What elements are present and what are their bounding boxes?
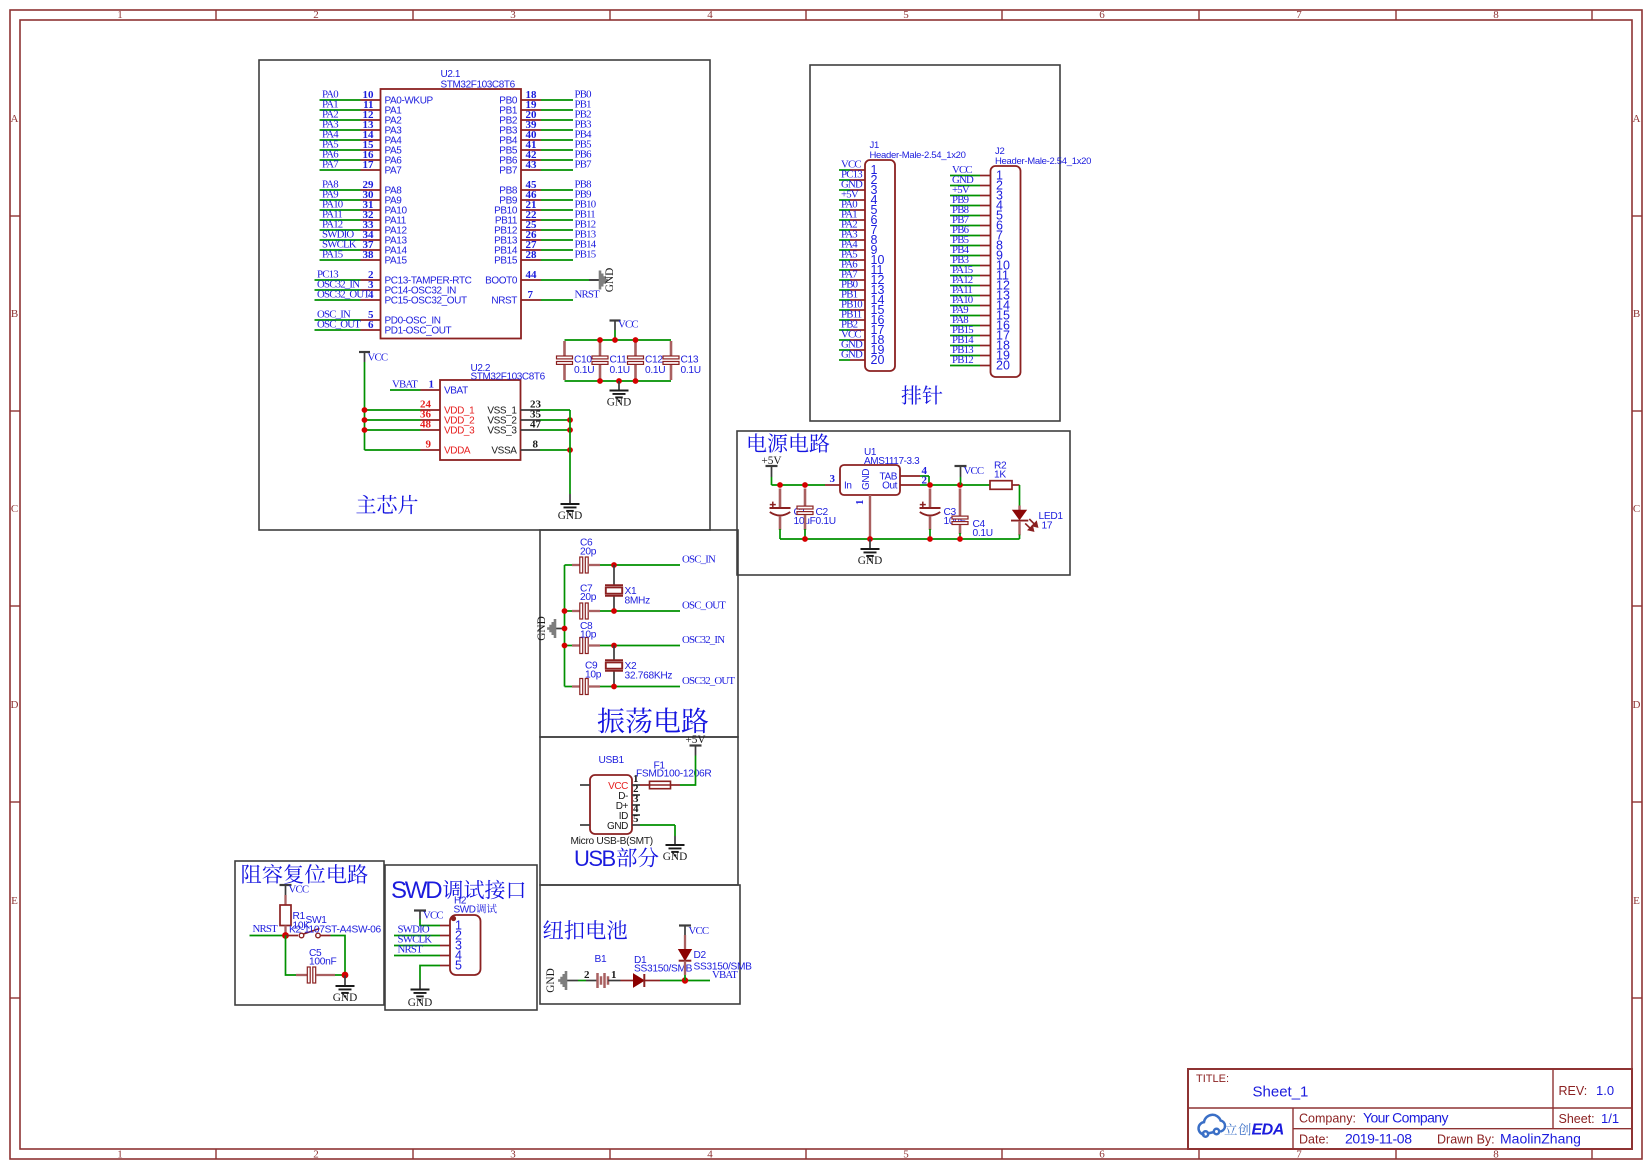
svg-text:VCC: VCC: [368, 352, 388, 364]
U2.1 pin 40 PB4 / wire + net label PB4: [499, 129, 592, 147]
wire VSS rail down to ground: [569, 410, 571, 494]
J2 pin 19 / wire + net label PB13: [950, 344, 1010, 363]
net label NRST + wire: [250, 923, 289, 939]
wire bottom rail C10-C13: [565, 380, 672, 382]
J2 pin 3 / wire + net label +5V: [950, 184, 1003, 203]
svg-text:1: 1: [117, 1149, 123, 1161]
svg-text:GND: GND: [841, 349, 863, 361]
svg-text:Out: Out: [882, 481, 898, 492]
U2.1 pin 14 PA4 / wire + net label PA4: [320, 129, 403, 147]
svg-text:GND: GND: [558, 510, 582, 522]
U2.1 pin 4 PC15-OSC32_OUT / wire + net label OSC32_OUT: [315, 289, 467, 307]
wire gnd to battery: [575, 980, 597, 982]
capacitor C13 0.1U: [663, 341, 701, 380]
U2.2 pin 8 VSSA + wire: [491, 439, 572, 457]
svg-text:32.768KHz: 32.768KHz: [625, 671, 673, 682]
svg-text:In: In: [844, 481, 852, 492]
svg-text:OSC32_OUT: OSC32_OUT: [317, 289, 370, 301]
svg-text:VBAT: VBAT: [392, 379, 418, 391]
ground GND usb: [663, 836, 687, 863]
svg-text:1K: 1K: [994, 470, 1006, 481]
U2.1 pin 15 PA5 / wire + net label PA5: [320, 139, 403, 157]
svg-text:PB15: PB15: [575, 249, 596, 261]
junction dots on C10-C13 rails: [597, 337, 638, 384]
ground GND swd: [408, 980, 432, 1009]
J1 pin 6 / wire + net label PA1: [839, 209, 878, 228]
J2 pin 4 / wire + net label PB9: [950, 194, 1003, 213]
section box usb: [540, 737, 738, 885]
wire SW1 to C5 right: [331, 936, 346, 976]
capacitor C11 0.1U: [592, 341, 630, 380]
capacitor C10 0.1U: [557, 341, 595, 380]
svg-text:GND: GND: [545, 968, 557, 992]
svg-text:GND: GND: [607, 821, 628, 832]
svg-text:3: 3: [830, 473, 836, 485]
svg-text:A: A: [11, 113, 19, 125]
svg-text:4: 4: [368, 289, 374, 301]
IC U2.1 STM32F103C8T6 body: [381, 89, 522, 339]
svg-text:PB12: PB12: [952, 354, 973, 366]
svg-text:PB7: PB7: [575, 159, 593, 171]
svg-text:Company:: Company:: [1299, 1112, 1356, 1126]
svg-text:REV:: REV:: [1559, 1084, 1588, 1098]
wire +5V to fuse: [680, 756, 696, 786]
svg-text:TITLE:: TITLE:: [1196, 1073, 1229, 1085]
svg-text:17: 17: [1042, 521, 1053, 532]
J2 pin 8 / wire + net label PB5: [950, 234, 1003, 253]
J2 pin 16 / wire + net label PA8: [950, 314, 1010, 333]
J1 pin 2 / wire + net label PC13: [839, 169, 878, 188]
svg-text:D: D: [1633, 699, 1641, 711]
svg-text:B: B: [1633, 308, 1640, 320]
power flag VCC above C10-C13: [610, 319, 639, 341]
svg-text:6: 6: [1099, 1149, 1105, 1161]
svg-text:1: 1: [429, 379, 435, 391]
svg-text:44: 44: [526, 269, 538, 281]
svg-text:3: 3: [510, 1149, 516, 1161]
U2.1 pin 28 PB15 / wire + net label PB15: [494, 249, 596, 267]
section box oscillator: [540, 530, 738, 737]
H2 pin 2 + net label SWDIO: [394, 924, 462, 943]
diode D2 SS3150/SMB (vertical): [679, 935, 752, 981]
J1 pin 19 / wire + net label GND: [839, 339, 884, 358]
svg-text:C: C: [11, 503, 18, 515]
J1 pin 13 / wire + net label PB0: [839, 279, 884, 298]
section box swd: [385, 865, 537, 1010]
svg-text:D: D: [11, 699, 19, 711]
U1 pin 1 (GND) lead down: [854, 495, 870, 539]
title block outer box: [1188, 1069, 1632, 1149]
section title 振荡电路: [598, 707, 708, 733]
USB1 pin 4 ID: [619, 803, 640, 822]
svg-text:B1: B1: [595, 954, 607, 965]
svg-text:1: 1: [854, 500, 866, 506]
svg-text:20p: 20p: [580, 592, 597, 603]
svg-text:10p: 10p: [585, 670, 602, 681]
svg-text:0.1U: 0.1U: [574, 365, 594, 376]
U2.1 pin 3 PC14-OSC32_IN / wire + net label OSC32_IN: [315, 279, 457, 297]
J1 pin 20 / wire + net label GND: [839, 349, 884, 368]
regulator U1 AMS1117-3.3 body: [840, 465, 900, 495]
svg-text:C: C: [1633, 503, 1640, 515]
svg-text:2: 2: [584, 969, 590, 981]
svg-text:1.0: 1.0: [1596, 1083, 1614, 1098]
svg-text:AMS1117-3.3: AMS1117-3.3: [864, 456, 920, 467]
svg-text:43: 43: [526, 159, 538, 171]
U2.2 pin 48 VDD_3: [362, 419, 475, 437]
svg-text:9: 9: [426, 439, 432, 451]
U2.1 pin 10 PA0-WKUP / wire + net label PA0: [320, 89, 434, 107]
J2 pin 9 / wire + net label PB4: [950, 244, 1003, 263]
svg-text:GND: GND: [861, 469, 872, 490]
svg-text:38: 38: [363, 249, 375, 261]
J1 pin 10 / wire + net label PA5: [839, 249, 884, 268]
U2.1 pin 20 PB2 / wire + net label PB2: [499, 109, 591, 127]
J2 pin 5 / wire + net label PB8: [950, 204, 1003, 223]
U2.1 pin 21 PB10 / wire + net label PB10: [494, 199, 596, 217]
svg-text:Header-Male-2.54_1x20: Header-Male-2.54_1x20: [870, 150, 966, 161]
J2 pin 10 / wire + net label PB3: [950, 254, 1010, 273]
svg-text:GND: GND: [604, 268, 616, 292]
U2.2 pin 47 VSS_3 + wire: [487, 419, 573, 437]
J2 pin 7 / wire + net label PB6: [950, 224, 1003, 243]
crystal X1 8MHz: [605, 565, 650, 611]
U2.1 pin 32 PA11 / wire + net label PA11: [320, 209, 407, 227]
svg-text:0.1U: 0.1U: [816, 516, 836, 527]
svg-text:BOOT0: BOOT0: [485, 276, 518, 287]
svg-text:8: 8: [1493, 9, 1499, 21]
svg-text:SWD: SWD: [454, 905, 476, 916]
U2.1 pin 38 PA15 / wire + net label PA15: [320, 249, 408, 267]
svg-text:USB1: USB1: [599, 755, 625, 766]
J1 pin 7 / wire + net label PA2: [839, 219, 878, 238]
power flag VCC (power section): [955, 465, 984, 485]
svg-text:0.1U: 0.1U: [681, 365, 701, 376]
U2.1 pin 6 PD1-OSC_OUT / wire + net label OSC_OUT: [315, 319, 452, 337]
svg-text:USB: USB: [574, 846, 616, 871]
capacitor C3 10uF: [920, 489, 966, 540]
diode D1 SS3150/SMB: [621, 955, 693, 987]
U2.1 pin 18 PB0 / wire + net label PB0: [499, 89, 591, 107]
svg-text:SWD: SWD: [391, 877, 442, 904]
svg-text:5: 5: [903, 9, 909, 21]
svg-text:D2: D2: [694, 950, 707, 961]
U2.2 pin 1 VBAT + net label VBAT: [390, 379, 468, 397]
svg-text:8MHz: 8MHz: [625, 596, 651, 607]
EasyEDA logo cloud: [1199, 1115, 1225, 1137]
svg-text:E: E: [11, 895, 18, 907]
capacitor C2 0.1U: [797, 489, 836, 540]
svg-text:1: 1: [611, 969, 617, 981]
wire battery to D1: [608, 980, 621, 982]
svg-text:SS3150/SMB: SS3150/SMB: [694, 962, 753, 973]
J1 pin 11 / wire + net label PA6: [839, 259, 884, 278]
svg-text:4: 4: [707, 1149, 713, 1161]
IC U2.2 STM32F103C8T6 (power pins) body: [440, 380, 521, 460]
svg-text:4: 4: [707, 9, 713, 21]
svg-text:MaolinZhang: MaolinZhang: [1500, 1131, 1581, 1147]
svg-text:GND: GND: [536, 616, 548, 640]
USB1 mounting tabs: [580, 785, 590, 825]
svg-text:VSS_3: VSS_3: [487, 426, 517, 437]
wire +5V to U1 In: [772, 482, 826, 488]
U1 pin 4 TAB: [879, 465, 929, 485]
power flag VCC (reset): [280, 884, 309, 896]
capacitor C1 10uF: [770, 489, 816, 540]
svg-text:PB7: PB7: [499, 166, 518, 177]
U2.1 pin 11 PA1 / wire + net label PA1: [320, 99, 403, 117]
svg-text:Your Company: Your Company: [1363, 1110, 1448, 1126]
U2.1 pin 30 PA9 / wire + net label PA9: [320, 189, 403, 207]
svg-text:2019-11-08: 2019-11-08: [1345, 1131, 1412, 1147]
J2 pin 14 / wire + net label PA10: [950, 294, 1010, 313]
svg-text:STM32F103C8T6: STM32F103C8T6: [441, 80, 516, 91]
U2.1 pin 41 PB5 / wire + net label PB5: [499, 139, 591, 157]
J2 pin 1 / wire + net label VCC: [950, 164, 1003, 183]
J1 pin 3 / wire + net label GND: [839, 179, 878, 198]
svg-text:6: 6: [368, 319, 374, 331]
svg-text:VCC: VCC: [618, 319, 638, 331]
J1 pin 17 / wire + net label PB2: [839, 319, 884, 338]
EasyEDA logo 立创EDA: [1225, 1123, 1251, 1135]
U2.1 pin 17 PA7 / wire + net label PA7: [320, 159, 403, 177]
H2 pin 4 + net label NRST: [394, 944, 462, 963]
wire left rail oscillator: [564, 565, 566, 687]
U2.1 pin 45 PB8 / wire + net label PB8: [499, 179, 591, 197]
ground flag at BOOT0 (sideways): [589, 268, 616, 292]
svg-text:20p: 20p: [580, 547, 597, 558]
svg-text:EDA: EDA: [1252, 1122, 1284, 1139]
ground GND below U2.2: [558, 494, 582, 522]
H2 pin 1 + wire from VCC: [420, 919, 462, 933]
wire top rail C10-C13: [565, 339, 672, 341]
svg-text:Header-Male-2.54_1x20: Header-Male-2.54_1x20: [995, 156, 1091, 167]
section box headers: [810, 65, 1060, 421]
svg-text:VCC: VCC: [964, 465, 984, 477]
svg-text:PA15: PA15: [322, 249, 343, 261]
U2.1 pin 13 PA3 / wire + net label PA3: [320, 119, 403, 137]
svg-text:1: 1: [117, 9, 123, 21]
svg-text:8: 8: [533, 439, 539, 451]
battery B1: [584, 954, 617, 988]
J2 pin 13 / wire + net label PA11: [950, 284, 1010, 303]
J2 pin 2 / wire + net label GND: [950, 174, 1003, 193]
svg-text:A: A: [1633, 113, 1641, 125]
wire bottom rail power: [780, 536, 1020, 542]
svg-text:7: 7: [1296, 9, 1302, 21]
J1 pin 9 / wire + net label PA4: [839, 239, 878, 258]
section box reset: [235, 861, 384, 1005]
frame row letters: [11, 113, 1641, 907]
svg-text:VCC: VCC: [423, 910, 443, 922]
U2.1 pin 39 PB3 / wire + net label PB3: [499, 119, 591, 137]
section title 阻容复位电路: [242, 864, 367, 884]
H2 pin1 marker dot: [451, 916, 456, 921]
svg-text:FSMD100-1206R: FSMD100-1206R: [636, 769, 711, 780]
power flag +5V (usb): [685, 734, 706, 756]
svg-text:0.1U: 0.1U: [645, 365, 665, 376]
svg-text:2: 2: [313, 9, 319, 21]
svg-text:1/1: 1/1: [1601, 1111, 1619, 1126]
LED LED1: [1011, 506, 1063, 540]
J2 pin 20 / wire + net label PB12: [950, 354, 1010, 373]
svg-text:7: 7: [528, 289, 534, 301]
svg-text:GND: GND: [858, 555, 882, 567]
svg-text:Drawn By:: Drawn By:: [1437, 1133, 1495, 1147]
U2.1 pin 25 PB12 / wire + net label PB12: [494, 219, 596, 237]
svg-text:20: 20: [871, 353, 885, 367]
svg-text:U2.1: U2.1: [441, 69, 461, 80]
wire D1 to VBAT: [660, 977, 710, 983]
J1 pin 12 / wire + net label PA7: [839, 269, 884, 288]
U2.1 pin 2 PC13-TAMPER-RTC / wire + net label PC13: [315, 269, 472, 287]
U2.1 pin 37 PA14 / wire + net label SWCLK: [320, 239, 408, 257]
capacitor C6 20p + wire + net label OSC_IN: [565, 538, 716, 574]
svg-text:10p: 10p: [580, 629, 597, 640]
capacitor C9 10p + wire + net label OSC32_OUT: [565, 661, 736, 695]
section title 纽扣电池: [543, 920, 627, 940]
svg-text:20: 20: [996, 359, 1010, 373]
ground flag battery (sideways): [545, 968, 575, 992]
U2.1 pin 34 PA13 / wire + net label SWDIO: [320, 229, 408, 247]
U2.1 pin 46 PB9 / wire + net label PB9: [499, 189, 591, 207]
U2.1 pin 19 PB1 / wire + net label PB1: [499, 99, 591, 117]
svg-text:3: 3: [510, 9, 516, 21]
U2.1 pin 29 PA8 / wire + net label PA8: [320, 179, 403, 197]
svg-text:NRST: NRST: [398, 944, 424, 956]
section title 排针: [902, 385, 943, 404]
ground GND power section: [858, 539, 882, 567]
ground flag oscillator (sideways): [536, 616, 567, 640]
U2.1 pin 31 PA10 / wire + net label PA10: [320, 199, 408, 217]
svg-text:OSC_IN: OSC_IN: [682, 554, 716, 566]
ground GND reset: [333, 976, 357, 1005]
J1 pin 15 / wire + net label PB10: [839, 299, 884, 318]
J2 pin 17 / wire + net label PB15: [950, 324, 1010, 343]
svg-text:VSSA: VSSA: [491, 446, 517, 457]
J2 pin 15 / wire + net label PA9: [950, 304, 1010, 323]
connector J2 Header-Male-2.54_1x20 body: [991, 166, 1021, 377]
U2.1 pin 27 PB14 / wire + net label PB14: [494, 239, 597, 257]
J1 pin 5 / wire + net label PA0: [839, 199, 878, 218]
U2.2 pin 9 VDDA: [421, 439, 471, 457]
U2.1 pin 26 PB13 / wire + net label PB13: [494, 229, 596, 247]
svg-text:NRST: NRST: [491, 296, 517, 307]
svg-text:PA15: PA15: [385, 256, 408, 267]
svg-text:100nF: 100nF: [309, 957, 336, 968]
capacitor C8 10p + wire + net label OSC32_IN: [562, 621, 726, 654]
svg-text:0.1U: 0.1U: [610, 365, 630, 376]
H2 pin 5 + wire to ground: [420, 959, 462, 981]
svg-text:Sheet_1: Sheet_1: [1253, 1084, 1309, 1101]
J1 pin 4 / wire + net label +5V: [839, 189, 878, 208]
USB1 pin 5 GND + wire: [607, 813, 675, 836]
svg-text:17: 17: [363, 159, 375, 171]
svg-text:OSC_OUT: OSC_OUT: [317, 319, 361, 331]
U2.1 pin 7 NRST + net label NRST: [491, 289, 600, 307]
svg-text:GND: GND: [663, 851, 687, 863]
title block internal lines: [1188, 1069, 1632, 1149]
power flag VCC above U2.2: [359, 352, 388, 411]
resistor R2 1K: [990, 461, 1020, 490]
svg-text:STM32F103C8T6: STM32F103C8T6: [471, 371, 546, 382]
connector J1 Header-Male-2.54_1x20 body: [865, 160, 895, 371]
svg-text:7: 7: [1296, 1149, 1302, 1161]
svg-text:B: B: [11, 308, 18, 320]
U2.2 pin 35 VSS_2 + wire: [487, 409, 573, 427]
svg-text:K2-1107ST-A4SW-06: K2-1107ST-A4SW-06: [289, 925, 382, 936]
svg-text:NRST: NRST: [253, 923, 279, 935]
svg-text:GND: GND: [408, 997, 432, 1009]
crystal X2 32.768KHz: [605, 646, 672, 687]
power flag VCC (battery): [679, 925, 709, 937]
U2.1 pin 42 PB6 / wire + net label PB6: [499, 149, 592, 167]
U1 pin 2 Out + wire to VCC: [882, 475, 990, 492]
U2.1 pin 33 PA12 / wire + net label PA12: [320, 219, 408, 237]
svg-text:OSC32_IN: OSC32_IN: [682, 634, 725, 646]
J1 pin 1 / wire + net label VCC: [839, 159, 878, 178]
svg-text:2: 2: [313, 1149, 319, 1161]
connector USB1 Micro USB-B body: [590, 775, 632, 834]
U2.1 pin 44 BOOT0 + wire: [485, 269, 589, 287]
svg-text:VCC: VCC: [289, 884, 309, 896]
capacitor C4 0.1U: [952, 489, 993, 540]
power flag +5V (power section): [761, 455, 782, 485]
svg-text:PB15: PB15: [494, 256, 518, 267]
svg-text:0.1U: 0.1U: [973, 528, 993, 539]
svg-text:NRST: NRST: [575, 289, 601, 301]
svg-text:PA7: PA7: [385, 166, 403, 177]
USB1 pin 1 VCC: [608, 773, 640, 792]
connector H2 SWD body: [450, 915, 481, 975]
svg-text:VCC: VCC: [689, 925, 709, 937]
svg-text:E: E: [1633, 895, 1640, 907]
capacitor C5 100nF: [296, 948, 348, 983]
U2.2 pin 36 VDD_2: [362, 409, 475, 427]
wire VCC rail to VDD pins: [365, 410, 421, 450]
svg-text:VBAT: VBAT: [444, 386, 468, 397]
svg-text:+5V: +5V: [761, 455, 782, 467]
U2.1 pin 43 PB7 / wire + net label PB7: [499, 159, 592, 177]
svg-text:PD1-OSC_OUT: PD1-OSC_OUT: [385, 326, 452, 337]
U2.1 pin 16 PA6 / wire + net label PA6: [320, 149, 403, 167]
svg-text:5: 5: [633, 813, 639, 825]
H2 pin 3 + net label SWCLK: [394, 934, 462, 953]
section box main chip: [259, 60, 710, 530]
svg-text:5: 5: [455, 959, 462, 973]
svg-text:OSC_OUT: OSC_OUT: [682, 600, 726, 612]
svg-text:GND: GND: [333, 992, 357, 1004]
J2 pin 18 / wire + net label PB14: [950, 334, 1010, 353]
USB1 pin 2 D-: [618, 783, 640, 802]
U2.2 pin 24 VDD_1: [362, 399, 475, 417]
capacitor C7 20p + wire + net label OSC_OUT: [562, 584, 727, 620]
section box power: [737, 431, 1070, 575]
U2.1 pin 5 PD0-OSC_IN / wire + net label OSC_IN: [315, 309, 441, 327]
svg-text:OSC32_OUT: OSC32_OUT: [682, 675, 735, 687]
svg-text:VDD_3: VDD_3: [444, 426, 475, 437]
USB1 pin 3 D+: [616, 793, 640, 812]
J1 pin 8 / wire + net label PA3: [839, 229, 878, 248]
wire NRST down to C5 left: [286, 936, 297, 976]
J2 pin 12 / wire + net label PA12: [950, 274, 1010, 293]
U2.2 pin 23 VSS_1 + wire: [487, 399, 570, 417]
J1 pin 16 / wire + net label PB11: [839, 309, 884, 328]
svg-text:48: 48: [420, 419, 432, 431]
svg-text:+5V: +5V: [685, 734, 706, 746]
svg-text:47: 47: [530, 419, 542, 431]
J2 pin 11 / wire + net label PA15: [950, 264, 1009, 283]
